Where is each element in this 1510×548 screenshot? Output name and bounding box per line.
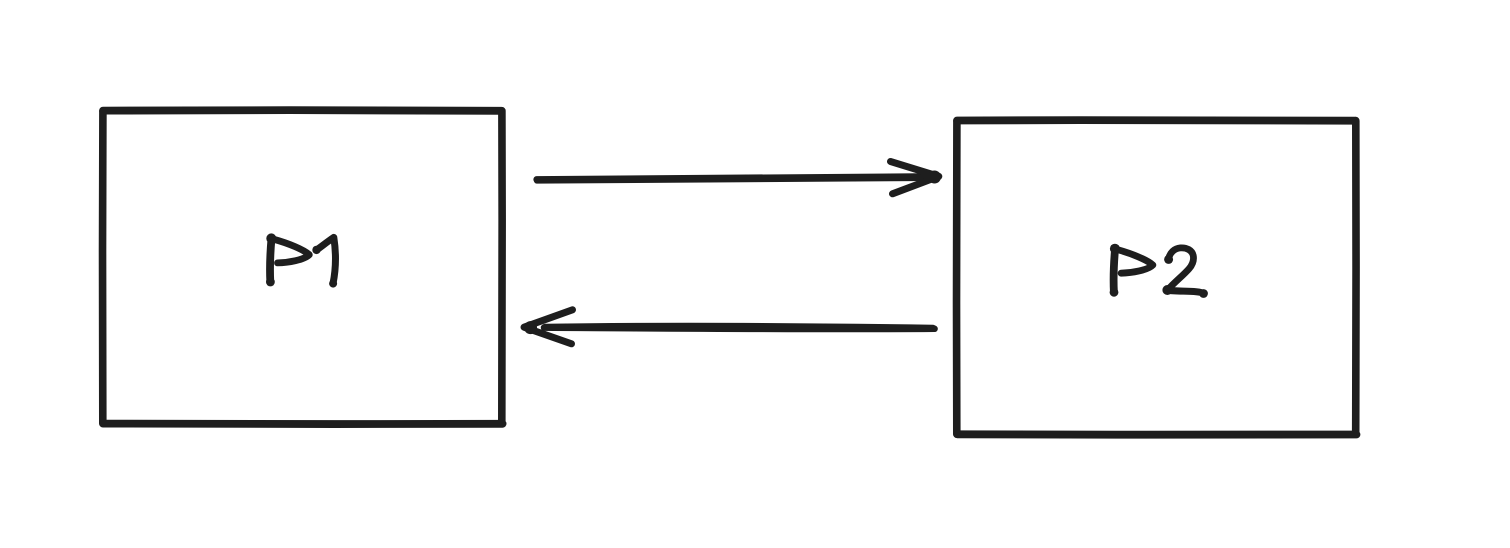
box P2 (957, 120, 1357, 435)
box P1 (103, 110, 503, 424)
arrow P1 to P2 (shaft) (537, 176, 934, 180)
label P2 (1110, 244, 1208, 298)
label P1 (266, 233, 337, 287)
arrow P2 to P1 (shaft) (544, 326, 935, 329)
arrowhead right (891, 162, 942, 194)
arrowhead left (524, 310, 573, 344)
